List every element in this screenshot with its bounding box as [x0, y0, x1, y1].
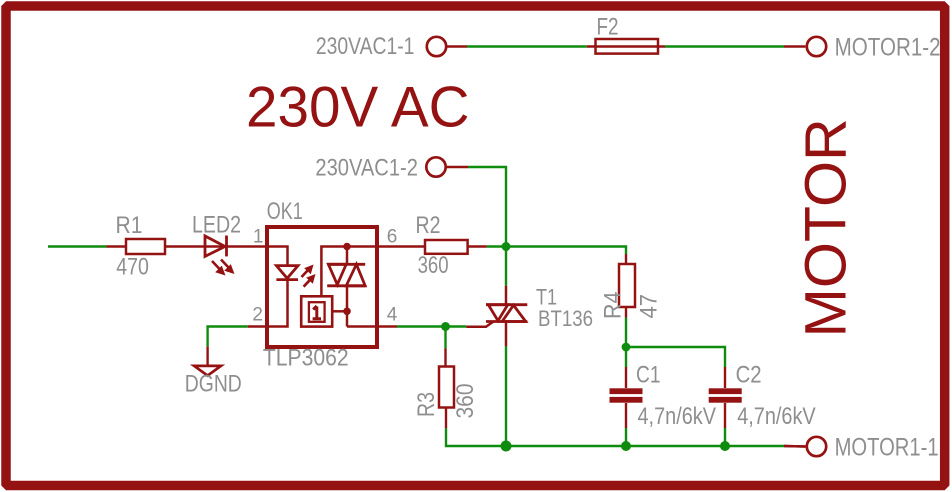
T1 left triangle [488, 305, 508, 321]
svg-text:R3: R3 [413, 392, 440, 417]
wire OK1 pin4 to T1 gate [397, 325, 466, 327]
terminal MOTOR1-1 [807, 437, 826, 456]
ground DGND [206, 346, 208, 366]
svg-text:TLP3062: TLP3062 [263, 345, 349, 372]
OK1 internal triac down branch [346, 286, 349, 327]
wire C1 bottom to rail [625, 428, 627, 446]
OK1 pin6 stub and R2 left pin [377, 245, 425, 247]
OK1 internal triac bottom bar [327, 284, 365, 287]
svg-text:360: 360 [452, 384, 479, 419]
svg-text:R4: R4 [599, 292, 626, 320]
junction gate node [441, 322, 450, 331]
OK1 light arrow 2 [304, 279, 311, 287]
svg-text:4,7n/6kV: 4,7n/6kV [737, 403, 816, 430]
svg-text:BT136: BT136 [538, 306, 593, 331]
svg-text:230VAC1-2: 230VAC1-2 [315, 155, 418, 182]
resistor R3 [444, 349, 446, 367]
OK1 internal triac left triangle [328, 264, 346, 284]
svg-text:F2: F2 [597, 14, 619, 41]
svg-text:C1: C1 [636, 362, 661, 389]
resistor R1 [107, 245, 268, 247]
triac T1 [505, 286, 508, 305]
svg-text:47: 47 [636, 294, 663, 319]
OK1 internal triac top bar [327, 263, 365, 266]
terminal MOTOR1-2 [807, 37, 826, 56]
OK1 internal LED triangle [276, 266, 298, 279]
T1 bottom bar [486, 320, 527, 323]
wire R3 bottom to rail [446, 428, 784, 446]
svg-text:OK1: OK1 [267, 198, 303, 225]
LED2 arrow 1 [212, 261, 220, 270]
OK1 detector digit 1 [313, 306, 321, 319]
fuse F2 [587, 45, 665, 47]
capacitor C1 [625, 367, 627, 388]
terminal 230VAC1-1 [427, 37, 446, 56]
svg-text:470: 470 [116, 254, 149, 281]
OK1 detector outer box [301, 296, 332, 326]
LED2 arrow 2 [221, 260, 229, 269]
svg-text:2: 2 [252, 305, 263, 326]
wire top rail left (230VAC1-1 to F2) [467, 45, 587, 47]
svg-text:MOTOR1-2: MOTOR1-2 [835, 33, 941, 61]
OK1 internal LED branch [267, 247, 288, 327]
OK1 light arrow 1 [302, 270, 309, 278]
wire gate node down to R3 [444, 327, 446, 349]
svg-text:4: 4 [387, 305, 398, 326]
junction rail-C2 [720, 441, 730, 451]
wire R2 out across to R4 [487, 247, 626, 255]
diode LED2 [205, 236, 225, 256]
OK1 internal triac branch with junction [343, 243, 351, 251]
OK1 internal pin4 wire [347, 325, 377, 328]
OK1 pin2 stub [248, 325, 267, 327]
svg-text:230VAC1-1: 230VAC1-1 [316, 33, 415, 60]
wire T1 top stub net [505, 247, 507, 286]
wire 230VAC1-2 down to node J1 [468, 167, 506, 245]
wire node A across to C2 [626, 347, 725, 367]
svg-text:4,7n/6kV: 4,7n/6kV [638, 403, 717, 430]
opto-coupler OK1 box [267, 227, 377, 347]
wire T1 bottom to rail [505, 346, 507, 446]
T1 top bar [486, 303, 527, 306]
OK1 detector box connector [332, 310, 347, 313]
svg-text:1: 1 [253, 227, 264, 248]
svg-text:6: 6 [387, 227, 398, 248]
svg-text:C2: C2 [736, 362, 762, 389]
junction rail-T1 [501, 441, 512, 452]
svg-text:R1: R1 [116, 212, 143, 239]
wire left input to R1 [48, 245, 107, 247]
OK1 internal triac right triangle [346, 264, 365, 286]
capacitor C2 [724, 367, 726, 388]
wire top rail right (F2 to MOTOR1-2) [665, 45, 784, 47]
wire node A R4 to C1 C2 [625, 318, 627, 368]
OK1 internal pin6 branch [321, 247, 377, 298]
svg-text:230V AC: 230V AC [246, 76, 470, 140]
wire OK1 pin2 to DGND [208, 327, 248, 347]
OK1 detector inner box [309, 302, 325, 322]
resistor R2 [425, 240, 468, 254]
T1 gate lead [466, 322, 493, 327]
wire C2 bottom to rail [724, 428, 726, 446]
junction rail-C1 [621, 441, 631, 451]
T1 right triangle [502, 305, 526, 321]
junction node J1 [502, 242, 511, 251]
resistor R4 [625, 254, 627, 264]
svg-text:360: 360 [418, 252, 449, 279]
OK1 pin4 stub [377, 325, 397, 327]
OK1 internal junction dot 2 [343, 308, 351, 316]
svg-text:R2: R2 [416, 212, 441, 239]
svg-text:MOTOR: MOTOR [794, 118, 859, 337]
svg-text:DGND: DGND [185, 371, 242, 398]
terminal 230VAC1-2 [426, 157, 445, 176]
MOTOR1-1 pin stub [784, 445, 805, 448]
OK1 internal LED bar [276, 278, 298, 281]
svg-text:LED2: LED2 [192, 212, 241, 239]
junction node A [622, 343, 631, 352]
svg-text:MOTOR1-1: MOTOR1-1 [835, 433, 939, 461]
